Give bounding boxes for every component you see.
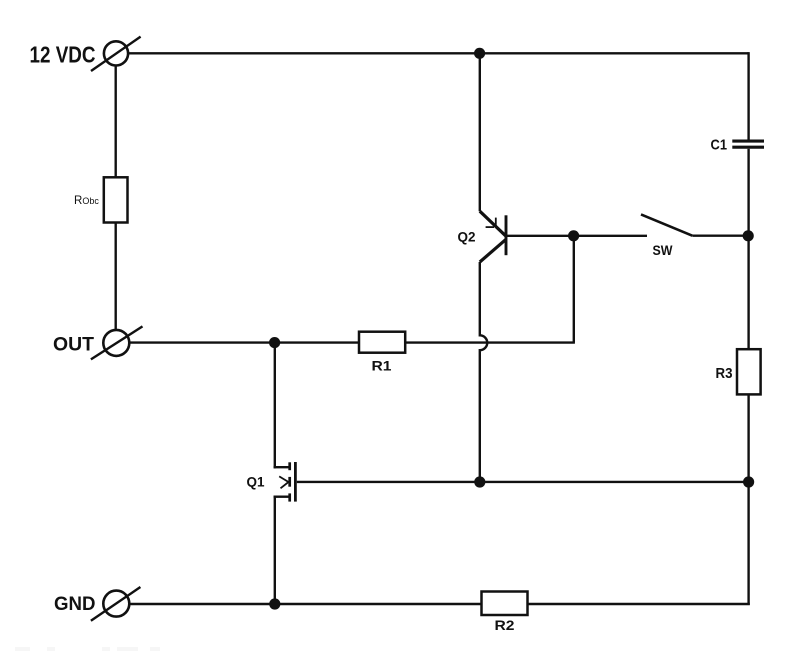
transistor Q2 bbox=[480, 53, 506, 262]
wire right rail top to C1 bbox=[747, 52, 749, 140]
wire Q2 base to switch bbox=[506, 235, 647, 237]
wire OUT to R1 bbox=[130, 341, 360, 343]
node SW junction bbox=[743, 230, 754, 241]
resistor R1 bbox=[359, 332, 405, 353]
node Q2 base junction bbox=[568, 230, 579, 241]
wire up from R1 wire to Q2 base node bbox=[573, 236, 575, 343]
wire R2 to right rail corner bbox=[528, 603, 750, 605]
svg-text:OUT: OUT bbox=[53, 334, 94, 356]
svg-text:Q2: Q2 bbox=[458, 229, 476, 245]
node GND junction bbox=[269, 598, 280, 609]
resistor Robc bbox=[104, 177, 128, 222]
wire Robc to OUT bbox=[114, 223, 116, 331]
node top junction bbox=[474, 48, 485, 59]
resistor R2 bbox=[482, 592, 528, 616]
wire Q2 emitter down with hop over R1 wire bbox=[480, 262, 487, 482]
svg-text:Q1: Q1 bbox=[247, 474, 265, 490]
node gate right junction bbox=[743, 476, 754, 487]
svg-text:12 VDC: 12 VDC bbox=[30, 42, 96, 68]
wire Q1 gate to right rail bbox=[297, 481, 749, 483]
node OUT junction bbox=[269, 337, 280, 348]
svg-text:R1: R1 bbox=[372, 358, 392, 374]
wire C1 to R3 bbox=[747, 149, 749, 350]
node gate mid junction bbox=[474, 476, 485, 487]
svg-text:GND: GND bbox=[54, 594, 96, 615]
svg-text:C1: C1 bbox=[711, 137, 728, 154]
terminal 12 VDC bbox=[91, 37, 141, 71]
wire R3 down right rail bbox=[747, 394, 749, 605]
faint cropped text bottom left bbox=[15, 647, 160, 651]
wire GND to R2 bbox=[130, 603, 482, 605]
svg-text:SW: SW bbox=[653, 242, 674, 258]
switch SW bbox=[641, 214, 748, 235]
wire top rail bbox=[128, 52, 749, 54]
capacitor C1 bbox=[732, 141, 764, 147]
terminal OUT bbox=[91, 326, 143, 359]
wire 12VDC down to Robc bbox=[114, 65, 116, 178]
terminal GND bbox=[91, 587, 140, 621]
svg-text:R3: R3 bbox=[716, 366, 733, 382]
mosfet Q1 bbox=[274, 343, 296, 604]
wire R1 to node under Q2 bbox=[405, 341, 575, 343]
svg-text:RObc: RObc bbox=[74, 195, 99, 207]
svg-text:R2: R2 bbox=[495, 617, 515, 633]
resistor R3 bbox=[737, 349, 761, 394]
